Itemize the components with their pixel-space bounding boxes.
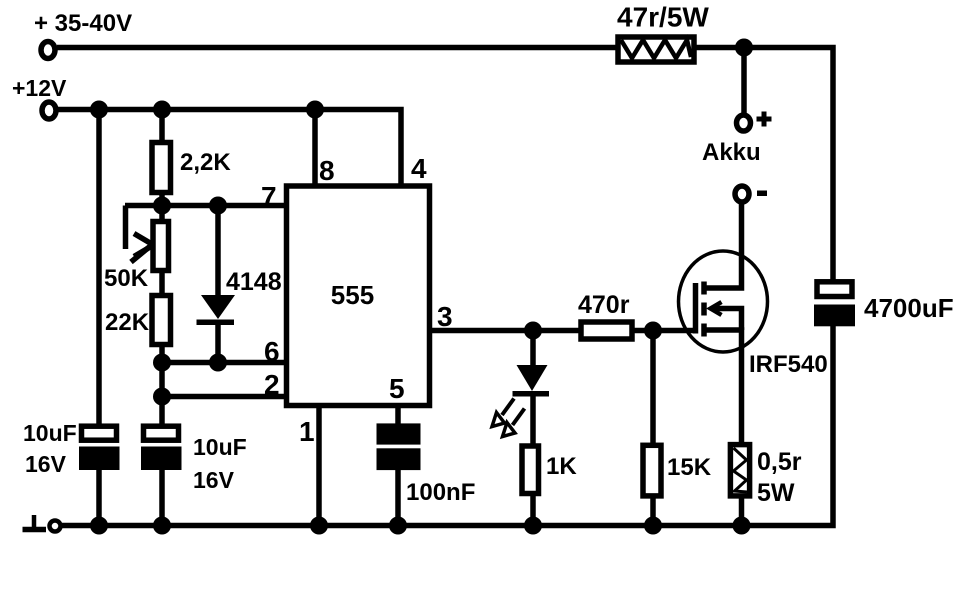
svg-text:2: 2: [264, 369, 280, 400]
wire C1 bottom: [96, 470, 102, 526]
wire 1K bottom: [530, 496, 536, 526]
node junction 15K branch: [644, 322, 662, 340]
svg-text:1: 1: [299, 416, 315, 447]
resistor R5 15K: [643, 445, 661, 496]
svg-text:0,5r: 0,5r: [757, 448, 802, 476]
potentiometer 50K body: [153, 222, 169, 271]
svg-text:470r: 470r: [578, 291, 630, 319]
ground symbol: [23, 515, 47, 530]
svg-text:+ 35-40V: + 35-40V: [34, 10, 132, 37]
wire stub to Akku + terminal: [741, 48, 747, 114]
terminal ground: [50, 521, 61, 532]
node junction pin7 x162: [153, 197, 171, 215]
wire pin 7 line: [125, 203, 287, 209]
resistor R1 2,2K: [152, 143, 171, 193]
label plus sign: [757, 112, 772, 127]
svg-text:16V: 16V: [193, 467, 235, 493]
wire +12V rail to pin4 corner: [58, 110, 401, 187]
wire 15K bottom: [650, 498, 656, 526]
svg-text:4: 4: [411, 153, 427, 184]
node junction bottom 1K: [524, 517, 542, 535]
wire diode cathode to pin6 line: [215, 325, 221, 363]
node junction bottom pin1: [310, 517, 328, 535]
gate plate: [693, 283, 699, 334]
node junction +12V rail pin8: [306, 101, 324, 119]
capacitor C4 4700uF: [814, 282, 855, 327]
node junction +12V rail x99: [90, 101, 108, 119]
wire C2 bottom: [159, 470, 165, 526]
wire pin 5 vertical: [395, 405, 401, 424]
transistor Q1 IRF540 MOSFET: [679, 204, 768, 444]
terminal + 35-40V input: [41, 42, 55, 59]
wire top rail from +35-40V terminal to resistor 47r: [57, 45, 618, 51]
drain stub: [704, 204, 742, 288]
svg-text:2,2K: 2,2K: [180, 149, 231, 176]
channel bar source: [701, 324, 707, 337]
source stub: [704, 330, 742, 444]
op-amp U1 555 timer box: [287, 186, 430, 406]
svg-text:15K: 15K: [667, 454, 712, 481]
svg-text:5: 5: [389, 373, 405, 404]
svg-text:10uF: 10uF: [193, 434, 247, 460]
svg-text:Akku: Akku: [702, 139, 761, 166]
terminal +12V input: [42, 102, 56, 119]
node junction pin6 diode: [209, 354, 227, 372]
potentiometer 50K wiper arrow: [131, 234, 154, 263]
svg-text:555: 555: [331, 280, 374, 310]
node junction bottom 0,5r: [733, 517, 751, 535]
node junction pin2 x162: [153, 388, 171, 406]
resistor R6 0,5r 5W: [730, 445, 749, 496]
LED light arrows: [492, 399, 525, 437]
wire pin 6 line: [162, 360, 287, 366]
capacitor C3 100nF: [377, 423, 421, 470]
terminal Akku +: [737, 115, 751, 131]
node junction pin6 x162: [153, 354, 171, 372]
terminal Akku -: [735, 186, 749, 202]
node junction +12V rail x162: [153, 101, 171, 119]
wire 0,5r bottom: [739, 498, 745, 526]
node junction pin7 diode: [209, 197, 227, 215]
node junction bottom x162: [153, 517, 171, 535]
wire pot bottom to 22K: [159, 273, 165, 294]
node junction bottom x99: [90, 517, 108, 535]
label minus sign: [757, 191, 767, 197]
wire left vertical x99 down to capacitor C1: [96, 110, 102, 426]
svg-text:3: 3: [437, 301, 453, 332]
wire pin8 vertical: [312, 110, 318, 187]
svg-text:6: 6: [264, 336, 280, 367]
svg-text:4700uF: 4700uF: [864, 293, 954, 323]
wire 22K bottom down to pin2 junction and capacitor C2: [159, 347, 165, 425]
svg-text:100nF: 100nF: [406, 479, 475, 506]
node junction bottom 15K: [644, 517, 662, 535]
wire x162 from rail to resistor 2,2K: [159, 110, 165, 142]
wire 2,2K bottom to pot top: [159, 195, 165, 220]
capacitor C2 10uF 16V: [141, 426, 182, 470]
wire pin 3 to 470r: [430, 328, 581, 334]
svg-text:16V: 16V: [25, 451, 67, 477]
svg-text:10uF: 10uF: [23, 420, 77, 446]
resistor R3 470r: [581, 322, 632, 339]
wire pin 2 line: [162, 394, 287, 400]
svg-text:22K: 22K: [105, 309, 150, 336]
svg-text:8: 8: [319, 155, 335, 186]
wire 15K vertical top: [650, 331, 656, 445]
LED D2: [513, 331, 550, 445]
wire 100nF bottom: [395, 470, 401, 526]
diode D1 4148: [197, 295, 236, 325]
svg-text:50K: 50K: [104, 265, 149, 292]
node junction at top rail / Akku+: [735, 39, 753, 57]
resistor 47r/5W: [618, 37, 694, 62]
wire from 47r right to top-right corner down to 4700uF: [694, 48, 833, 282]
svg-text:4148: 4148: [226, 268, 282, 296]
svg-text:1K: 1K: [546, 453, 577, 480]
wire bottom rail: [62, 325, 833, 526]
svg-text:7: 7: [261, 181, 277, 212]
channel bar drain: [701, 282, 707, 295]
svg-text:IRF540: IRF540: [749, 351, 828, 378]
wire 470r to gate: [635, 328, 696, 334]
resistor R2 22K: [152, 296, 171, 345]
body stub with arrow: [711, 309, 742, 331]
resistor R4 1K: [522, 446, 539, 494]
svg-text:47r/5W: 47r/5W: [617, 2, 709, 33]
capacitor C1 10uF 16V: [79, 426, 120, 470]
wire pot wiper loop: [123, 206, 129, 250]
wire diode branch top: [215, 206, 221, 297]
svg-text:5W: 5W: [757, 479, 795, 507]
wire pin 1 vertical: [316, 405, 322, 526]
node junction LED branch: [524, 322, 542, 340]
svg-text:+12V: +12V: [12, 75, 67, 101]
channel bar body: [701, 303, 707, 316]
node junction bottom 100nF: [389, 517, 407, 535]
